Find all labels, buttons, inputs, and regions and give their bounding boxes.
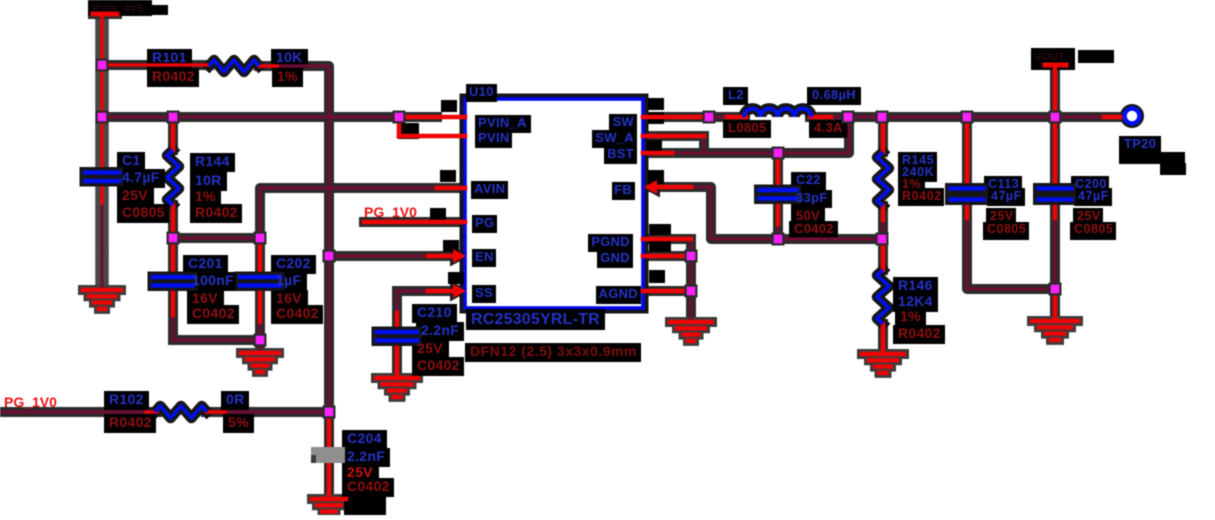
svg-text:C0805: C0805 bbox=[987, 222, 1026, 236]
svg-text:4.7µF: 4.7µF bbox=[122, 169, 160, 185]
svg-text:AGND: AGND bbox=[599, 286, 638, 301]
svg-text:L0805: L0805 bbox=[728, 120, 766, 135]
svg-text:PVIN_A: PVIN_A bbox=[478, 115, 527, 130]
svg-text:0R: 0R bbox=[226, 391, 245, 407]
svg-text:5%: 5% bbox=[228, 414, 249, 430]
svg-text:10R: 10R bbox=[195, 172, 222, 188]
svg-text:25V: 25V bbox=[990, 209, 1014, 223]
svg-text:C0402: C0402 bbox=[192, 305, 235, 321]
svg-text:C0805: C0805 bbox=[1074, 222, 1113, 236]
svg-text:L2: L2 bbox=[728, 87, 744, 102]
svg-text:1%: 1% bbox=[195, 188, 216, 204]
svg-text:33pF: 33pF bbox=[796, 190, 828, 205]
svg-text:R102: R102 bbox=[109, 391, 144, 407]
svg-text:PVIN_4V5: PVIN_4V5 bbox=[92, 3, 143, 15]
svg-text:25V: 25V bbox=[1077, 209, 1101, 223]
svg-text:SW: SW bbox=[612, 114, 634, 129]
svg-text:C210: C210 bbox=[417, 304, 452, 320]
svg-text:R101: R101 bbox=[152, 49, 187, 65]
svg-text:VOUT: VOUT bbox=[1034, 51, 1065, 63]
svg-text:RC25305YRL-TR: RC25305YRL-TR bbox=[471, 311, 600, 328]
svg-text:C0402: C0402 bbox=[347, 478, 390, 494]
svg-text:16V: 16V bbox=[276, 290, 302, 306]
svg-text:BST: BST bbox=[607, 146, 634, 161]
svg-text:1µF: 1µF bbox=[276, 272, 301, 288]
svg-text:C202: C202 bbox=[276, 255, 311, 271]
svg-text:SW_A: SW_A bbox=[595, 130, 634, 145]
svg-text:R0402: R0402 bbox=[902, 189, 942, 203]
svg-text:PG: PG bbox=[475, 215, 494, 230]
svg-text:DFN12 (2.5) 3x3x0.9mm: DFN12 (2.5) 3x3x0.9mm bbox=[470, 343, 637, 359]
svg-text:TP20: TP20 bbox=[1124, 136, 1156, 151]
svg-text:C22: C22 bbox=[796, 172, 821, 187]
svg-text:1%: 1% bbox=[277, 68, 298, 84]
svg-text:25V: 25V bbox=[122, 187, 148, 203]
svg-text:R146: R146 bbox=[898, 277, 933, 293]
svg-text:PVIN: PVIN bbox=[478, 130, 510, 145]
svg-text:AVIN: AVIN bbox=[474, 181, 505, 196]
svg-text:C1: C1 bbox=[122, 152, 141, 168]
svg-text:R144: R144 bbox=[195, 153, 230, 169]
svg-text:C204: C204 bbox=[347, 430, 382, 446]
svg-text:1%: 1% bbox=[900, 308, 921, 324]
svg-text:PGND: PGND bbox=[591, 234, 630, 249]
svg-text:C0402: C0402 bbox=[276, 305, 319, 321]
svg-text:SS: SS bbox=[475, 285, 493, 300]
svg-text:C0805: C0805 bbox=[122, 204, 165, 220]
svg-text:R0402: R0402 bbox=[152, 68, 195, 84]
svg-text:EN: EN bbox=[475, 249, 494, 264]
svg-text:GND: GND bbox=[600, 250, 630, 265]
svg-text:10K: 10K bbox=[276, 49, 303, 65]
svg-text:25V: 25V bbox=[417, 340, 443, 356]
svg-text:R0402: R0402 bbox=[109, 414, 152, 430]
svg-text:2.2nF: 2.2nF bbox=[347, 448, 385, 464]
svg-text:FB: FB bbox=[614, 182, 632, 197]
svg-text:4.3A: 4.3A bbox=[814, 120, 843, 135]
svg-text:100nF: 100nF bbox=[192, 272, 234, 288]
svg-text:0.68µH: 0.68µH bbox=[812, 87, 856, 102]
svg-text:PG_1V0: PG_1V0 bbox=[4, 394, 57, 410]
svg-text:C0402: C0402 bbox=[417, 357, 460, 373]
svg-text:2.2nF: 2.2nF bbox=[421, 322, 459, 338]
svg-text:12K4: 12K4 bbox=[898, 293, 933, 309]
svg-text:PG_1V0: PG_1V0 bbox=[364, 204, 417, 220]
svg-text:C201: C201 bbox=[188, 255, 223, 271]
svg-text:16V: 16V bbox=[192, 290, 218, 306]
svg-text:R0402: R0402 bbox=[195, 204, 238, 220]
svg-text:R0402: R0402 bbox=[898, 325, 941, 341]
svg-text:C0402: C0402 bbox=[794, 221, 834, 236]
svg-text:47µF: 47µF bbox=[1078, 189, 1109, 203]
svg-text:U10: U10 bbox=[469, 84, 494, 99]
svg-text:47µF: 47µF bbox=[991, 189, 1022, 203]
